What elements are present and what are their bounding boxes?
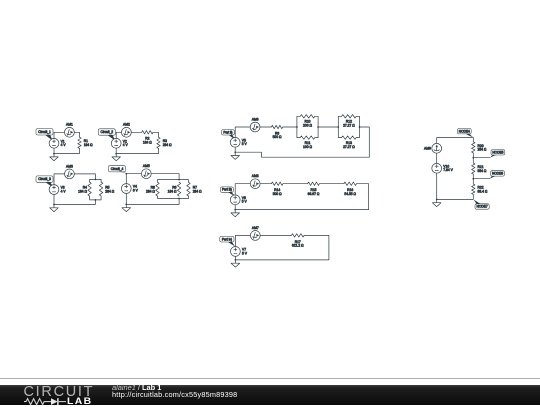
wire R16 to return loop xyxy=(235,184,368,210)
wire V6 top to AM8 xyxy=(235,184,250,195)
resistor R1 184 ohm xyxy=(78,137,93,148)
svg-text:NODE6: NODE6 xyxy=(492,172,503,176)
svg-text:500 Ω: 500 Ω xyxy=(273,135,282,139)
voltage source V1 4 V xyxy=(49,138,66,148)
wire V5 top to AM6 xyxy=(235,127,250,137)
junction bottom of parallel bank xyxy=(178,198,180,200)
resistor R12 27.27 ohm xyxy=(342,115,357,128)
ground of circuit 1 xyxy=(50,154,59,161)
resistor R7 284 ohm xyxy=(187,182,202,196)
wire box 2 to return loop xyxy=(235,127,369,157)
wire V4 top to AM5 xyxy=(126,174,141,184)
svg-text:4 V: 4 V xyxy=(61,189,67,193)
ground of part B xyxy=(231,210,240,217)
junction at V5 bottom xyxy=(234,151,236,153)
resistor R15 66.67 ohm xyxy=(308,182,320,196)
svg-text:284 Ω: 284 Ω xyxy=(146,189,155,193)
CircuitLab logo word CIRCUIT xyxy=(24,384,95,400)
footer url text xyxy=(112,390,237,399)
wire R9 to parallel box 1 xyxy=(283,126,297,128)
voltage source V6 5 V xyxy=(230,195,247,205)
svg-text:584 Ω: 584 Ω xyxy=(478,169,487,173)
resistor R21 584 ohm xyxy=(472,163,487,174)
wire AM7 to R17 xyxy=(260,234,291,236)
svg-text:54.55 Ω: 54.55 Ω xyxy=(344,192,356,196)
ammeter AM9 xyxy=(424,143,442,153)
svg-text:AM9: AM9 xyxy=(424,147,431,151)
wire R3 bottom to V2 bottom xyxy=(116,148,158,153)
resistor R6 184 ohm xyxy=(168,182,181,196)
svg-text:184 Ω: 184 Ω xyxy=(78,189,87,193)
wire bottom rail of R4 R5 xyxy=(90,196,102,200)
page bottom separator line xyxy=(0,378,540,379)
callout label Circuit_1 xyxy=(36,129,53,141)
ground of circuit 2 xyxy=(112,154,121,161)
wire V3 top to AM3 xyxy=(54,174,65,185)
junction left node of box 1 xyxy=(296,126,298,128)
svg-text:AM3: AM3 xyxy=(66,164,73,168)
svg-text:621.2 Ω: 621.2 Ω xyxy=(292,244,304,248)
svg-text:27.27 Ω: 27.27 Ω xyxy=(343,123,355,127)
svg-text:Part ii): Part ii) xyxy=(223,130,232,134)
resistor R16 54.55 ohm xyxy=(344,182,357,196)
footer bar xyxy=(0,385,540,406)
wire R1 bottom to V1 bottom xyxy=(54,148,80,153)
wire V2 top to AM2 xyxy=(116,132,121,138)
stub wire to NODE6 xyxy=(473,178,490,180)
callout label NODE6 xyxy=(490,171,505,179)
resistor R9 500 ohm xyxy=(271,125,282,139)
svg-text:NODE7: NODE7 xyxy=(477,205,488,209)
junction at V4 bottom xyxy=(125,204,127,206)
ground of part A xyxy=(231,152,240,159)
wire AM3 to parallel pair top node xyxy=(74,174,95,180)
resistor R20 284 ohm xyxy=(472,142,487,153)
voltage source V3 4 V xyxy=(49,185,66,195)
resistor R2 184 ohm xyxy=(142,131,153,145)
callout label Part ii xyxy=(222,130,235,140)
resistor R3 284 ohm xyxy=(157,137,172,148)
wire bottom branch of box 1 xyxy=(297,127,300,138)
wire AM2 to R2 xyxy=(131,131,141,133)
wire R17 to return loop xyxy=(235,235,329,260)
svg-text:Part iv): Part iv) xyxy=(222,237,232,241)
ammeter AM8 xyxy=(250,174,260,189)
junction at V6 bottom xyxy=(234,209,236,211)
svg-text:7.84 V: 7.84 V xyxy=(443,168,453,172)
svg-text:4 V: 4 V xyxy=(61,143,67,147)
ammeter AM7 xyxy=(250,226,260,241)
stub wire to NODE5 xyxy=(473,157,490,159)
callout label NODE5 xyxy=(490,150,505,158)
svg-text:5 V: 5 V xyxy=(242,142,248,146)
wire bank bottom to V4 bottom xyxy=(126,193,179,204)
wire AM6 to R9 xyxy=(260,126,271,128)
svg-text:184 Ω: 184 Ω xyxy=(143,140,152,144)
svg-text:4 V: 4 V xyxy=(123,143,129,147)
wire bottom rail of R8 R6 R7 xyxy=(158,196,189,198)
junction top of parallel bank xyxy=(178,179,180,181)
junction at V2 bottom xyxy=(115,153,117,155)
wire AM5 to parallel bank top xyxy=(151,174,179,180)
callout label Circuit_4 xyxy=(109,166,126,173)
svg-text:Part iii): Part iii) xyxy=(222,188,232,192)
ammeter AM2 xyxy=(122,123,132,138)
resistor R10 200 ohm xyxy=(300,115,315,128)
wire top rail of R8 R6 R7 xyxy=(158,180,189,183)
junction at V10 bottom xyxy=(436,199,438,201)
footer title text xyxy=(112,383,161,392)
ammeter AM3 xyxy=(65,164,75,179)
svg-text:5 V: 5 V xyxy=(242,251,248,255)
svg-text:Circuit_4: Circuit_4 xyxy=(111,167,124,171)
svg-text:AM6: AM6 xyxy=(252,117,259,121)
ground of node ladder xyxy=(432,199,441,206)
svg-text:88.4 Ω: 88.4 Ω xyxy=(478,189,488,193)
wire top branch right of box 1 xyxy=(315,116,318,127)
wire bottom branch right of box 2 xyxy=(356,127,359,138)
svg-text:AM1: AM1 xyxy=(66,123,73,127)
voltage source V5 5 V xyxy=(230,137,247,147)
resistor R22 88.4 ohm xyxy=(472,184,488,195)
wire R14 to R15 xyxy=(283,183,308,185)
CircuitLab logo resistor and diode glyph with LAB xyxy=(22,397,92,407)
callout label NODE7 xyxy=(473,200,489,210)
svg-text:NODE4: NODE4 xyxy=(459,129,470,133)
wire R21 to R22 with NODE6 stub xyxy=(472,174,474,184)
wire AM9 to V10 xyxy=(436,153,438,163)
wire AM1 to R1 xyxy=(74,132,79,137)
junction node5 xyxy=(472,157,474,159)
resistor R5 284 ohm xyxy=(99,182,114,196)
svg-text:284 Ω: 284 Ω xyxy=(105,189,114,193)
wire top branch right of box 2 xyxy=(356,116,359,127)
svg-text:284 Ω: 284 Ω xyxy=(163,143,172,147)
wire top branch of box 2 xyxy=(338,116,341,127)
ground of part C xyxy=(231,260,240,267)
wire AM8 to R14 xyxy=(260,183,271,185)
svg-text:500 Ω: 500 Ω xyxy=(273,192,282,196)
junction at V1 bottom xyxy=(53,153,55,155)
svg-text:AM2: AM2 xyxy=(123,123,130,127)
resistor R8 284 ohm xyxy=(146,182,159,196)
wire V1 top to AM1 xyxy=(54,132,65,138)
svg-text:6 V: 6 V xyxy=(133,188,139,192)
callout label Circuit_3 xyxy=(36,176,53,187)
wire R22 bottom to ground rail xyxy=(437,195,474,200)
svg-text:184 Ω: 184 Ω xyxy=(84,143,93,147)
voltage source V4 6 V xyxy=(121,184,138,194)
wire R2 to R3 xyxy=(153,132,159,137)
wire V7 top to AM7 xyxy=(235,235,250,246)
svg-text:27.27 Ω: 27.27 Ω xyxy=(343,145,355,149)
junction at V7 bottom xyxy=(235,259,237,261)
junction at V3 bottom xyxy=(53,204,55,206)
voltage source V7 5 V xyxy=(231,247,248,257)
wire top rail of R4 R5 xyxy=(90,179,102,182)
svg-text:5 V: 5 V xyxy=(242,200,248,204)
wire pair bottom to V3 bottom xyxy=(54,194,95,204)
resistor R17 621.2 ohm xyxy=(291,234,304,248)
wire V10 bottom to ground rail xyxy=(436,173,438,199)
junction right node of box 1 xyxy=(317,126,319,128)
callout label Circuit_2 xyxy=(98,129,115,140)
callout label Part iv xyxy=(220,236,235,246)
svg-text:200 Ω: 200 Ω xyxy=(303,123,312,127)
svg-text:284 Ω: 284 Ω xyxy=(193,189,202,193)
wire bottom branch right of box 1 xyxy=(315,127,318,138)
callout label Part iii xyxy=(221,187,235,196)
ammeter AM6 xyxy=(250,117,260,131)
resistor R14 500 ohm xyxy=(271,182,283,196)
svg-text:284 Ω: 284 Ω xyxy=(478,148,487,152)
wire bottom branch of box 2 xyxy=(338,127,341,138)
svg-text:AM5: AM5 xyxy=(143,164,150,168)
resistor R11 100 ohm xyxy=(300,136,315,149)
svg-text:AM8: AM8 xyxy=(252,174,259,178)
svg-text:66.67 Ω: 66.67 Ω xyxy=(308,192,320,196)
junction bottom of R4 R5 pair xyxy=(95,199,97,201)
ground of circuit 3 xyxy=(50,205,59,212)
junction top of R4 R5 pair xyxy=(95,179,97,181)
wire AM9 top to R20 top xyxy=(437,138,474,144)
svg-text:184 Ω: 184 Ω xyxy=(168,189,177,193)
voltage source V10 7.84 V xyxy=(432,163,454,173)
callout label NODE4 xyxy=(457,129,473,138)
ammeter AM1 xyxy=(65,123,75,138)
wire top branch of box 1 xyxy=(297,116,300,127)
wire R20 to R21 with NODE5 stub xyxy=(472,153,474,163)
ground of circuit 4 xyxy=(122,204,131,211)
svg-text:NODE5: NODE5 xyxy=(492,150,503,154)
junction node6 xyxy=(472,178,474,180)
wire box 1 to box 2 xyxy=(318,126,338,128)
resistor R4 184 ohm xyxy=(78,182,91,196)
svg-text:Circuit_3: Circuit_3 xyxy=(38,177,51,181)
junction right node of box 2 xyxy=(359,126,361,128)
junction left node of box 2 xyxy=(337,126,339,128)
junction at V4 top node xyxy=(125,173,127,175)
ammeter AM5 xyxy=(141,164,151,179)
svg-text:Circuit_2: Circuit_2 xyxy=(101,130,114,134)
svg-text:100 Ω: 100 Ω xyxy=(303,145,312,149)
wire R15 to R16 xyxy=(319,183,344,185)
voltage source V2 4 V xyxy=(111,138,128,148)
resistor R13 27.27 ohm xyxy=(342,136,357,149)
svg-text:Circuit_1: Circuit_1 xyxy=(38,130,51,134)
svg-text:AM7: AM7 xyxy=(252,226,259,230)
